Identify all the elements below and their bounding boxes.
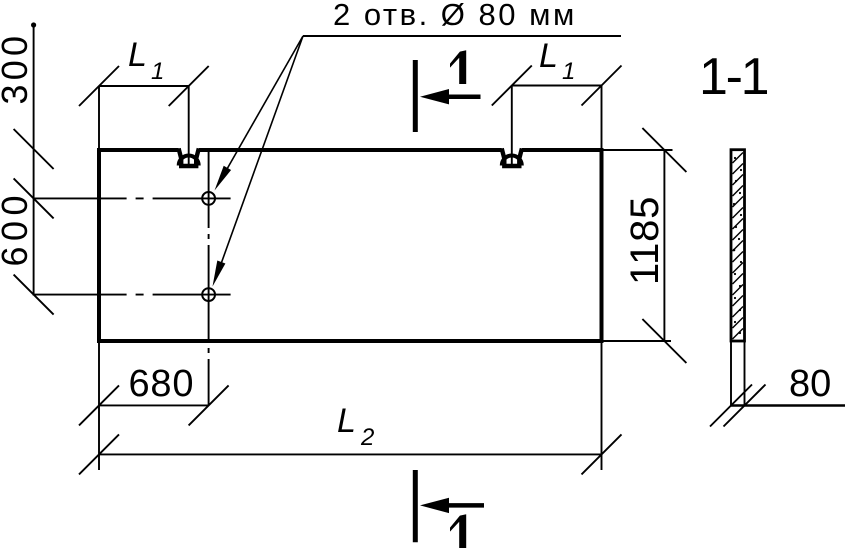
notch 2 centerline	[511, 86, 513, 165]
svg-text:2: 2	[360, 424, 374, 451]
panel outline	[97, 148, 604, 343]
centerline hole 1 horizontal	[34, 197, 231, 199]
dimension 80 ticks	[710, 385, 766, 427]
leader to hole 2	[217, 36, 303, 275]
dimension L1 left	[79, 66, 209, 148]
section cut arrow top	[448, 94, 481, 99]
notch 1 centerline	[188, 86, 190, 164]
label 1 top	[450, 50, 466, 84]
callout 2 holes d80 leader shelf	[303, 35, 621, 37]
svg-text:2 отв. Ø 80 мм: 2 отв. Ø 80 мм	[333, 0, 577, 32]
concrete hatch	[733, 153, 744, 340]
section bar outline (cut, hatched part)	[731, 150, 745, 341]
section cut arrow bottom	[448, 503, 484, 508]
notch 1 (left lifting recess)	[179, 148, 199, 166]
dimension 680 bottom	[79, 343, 229, 470]
centerline holes vertical	[208, 151, 210, 406]
svg-text:1-1: 1-1	[699, 48, 768, 106]
concrete dots	[733, 157, 742, 334]
svg-text:L: L	[539, 37, 558, 75]
svg-text:80: 80	[789, 363, 831, 405]
dimension 80 (section thickness)	[731, 404, 845, 406]
svg-text:600: 600	[0, 190, 35, 267]
hole 2	[202, 288, 215, 301]
svg-text:1185: 1185	[623, 196, 667, 285]
dimension 1185 right	[604, 128, 687, 363]
leader to hole 1	[219, 36, 303, 183]
section cut line 1 top	[413, 60, 418, 132]
svg-text:1: 1	[562, 58, 575, 85]
label 1 bottom	[450, 514, 466, 548]
svg-text:L: L	[337, 402, 356, 440]
notch 2 (right lifting recess)	[502, 148, 522, 166]
hole 1	[202, 192, 215, 205]
dimension L2 bottom	[79, 343, 622, 474]
svg-text:300: 300	[0, 32, 35, 105]
centerline hole 2 horizontal	[34, 294, 231, 296]
svg-text:L: L	[128, 36, 147, 74]
dimension L1 right	[492, 66, 622, 149]
svg-text:1: 1	[151, 58, 164, 85]
section bar lower part	[731, 341, 745, 406]
svg-text:680: 680	[129, 363, 195, 405]
section cut line 1 bottom	[413, 470, 418, 542]
dimension line left (300/600)	[14, 24, 54, 315]
